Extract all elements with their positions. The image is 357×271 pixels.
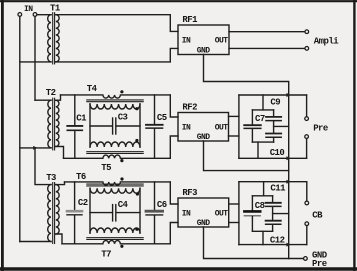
wire inner box bottom edge row2 <box>252 141 273 143</box>
wire box left edge row3 <box>89 188 91 233</box>
wire T5 line into RF2 lower pin <box>170 136 178 158</box>
svg-text:OUT: OUT <box>215 209 229 218</box>
wire T2 secondary bottom step <box>56 147 64 159</box>
node T4 phase dot <box>120 90 123 93</box>
svg-text:T1: T1 <box>50 3 61 13</box>
wire inner box bottom stub row2 <box>257 142 259 158</box>
svg-text:Pre: Pre <box>312 259 327 269</box>
svg-text:Pre: Pre <box>313 124 328 134</box>
wire RF3 OUT top stub <box>229 203 239 205</box>
wire RF3 OUT bottom stub <box>229 222 239 224</box>
op-amp block RF3 <box>178 188 229 228</box>
node T6 phase dot <box>120 177 123 180</box>
wire box left edge row2 <box>89 104 91 147</box>
wire RF2 net left rail <box>238 95 240 158</box>
tuned circuit box bottom winding row2 <box>90 142 140 147</box>
svg-text:T5: T5 <box>101 163 111 173</box>
svg-text:C11: C11 <box>270 184 286 194</box>
svg-text:RF3: RF3 <box>182 188 197 198</box>
node IN terminal 2 <box>33 13 37 17</box>
wire inner box top stub row2 <box>262 95 264 110</box>
core lines above box row3 <box>87 184 143 186</box>
svg-text:C2: C2 <box>78 198 88 208</box>
capacitor C5 <box>146 95 163 158</box>
wire box right edge row2 <box>139 104 141 147</box>
capacitor C10 in right edge <box>266 134 281 143</box>
wire middle tap row2 <box>274 125 289 127</box>
wire RF3 net left rail <box>238 182 240 245</box>
wire T3 secondary bottom step <box>56 234 62 244</box>
svg-text:IN: IN <box>182 209 191 218</box>
op-amp block RF2 <box>178 102 229 142</box>
wire inner box top edge row2 <box>252 109 273 111</box>
wire RF1 GND to ground bus <box>204 55 289 96</box>
wire RF3 GND to GND Pre terminal <box>204 227 304 259</box>
svg-text:OUT: OUT <box>215 123 229 132</box>
node box bottom phase dot row3 <box>135 228 138 231</box>
wire Pre bottom stub <box>306 139 308 159</box>
junction arrow gnd rail bottom line row2 <box>286 156 290 160</box>
svg-text:Ampli: Ampli <box>314 36 339 46</box>
node GND Pre terminal <box>304 257 308 261</box>
svg-text:CB: CB <box>312 211 323 221</box>
svg-text:C9: C9 <box>270 97 280 107</box>
wire T1 secondary top to RF1 <box>56 15 178 32</box>
svg-text:T6: T6 <box>76 172 86 182</box>
node Ampli terminal top <box>305 30 309 34</box>
wire T2 primary bottom lead to left rail <box>20 147 51 149</box>
node box top phase dot row3 <box>136 192 139 195</box>
wire box right edge row3 <box>139 188 141 233</box>
transformer T2 <box>48 98 59 150</box>
tuned circuit box top winding row3 <box>90 188 140 193</box>
tuned circuit box bottom winding row3 <box>90 228 140 233</box>
wire IN2 segment T2 bottom to T3 primary top <box>35 148 51 185</box>
svg-text:C3: C3 <box>118 113 128 123</box>
wire RF2 net bottom line <box>239 157 307 159</box>
capacitor C7 in left edge <box>244 110 261 142</box>
node Ampli terminal bottom <box>305 47 309 51</box>
wire CB bottom stub <box>306 226 308 245</box>
svg-text:OUT: OUT <box>215 36 229 45</box>
capacitor C8 in left edge <box>244 196 260 232</box>
core lines below box row3 <box>87 238 143 240</box>
node IN terminal 1 <box>18 13 22 17</box>
node CB terminal top <box>305 201 309 205</box>
inductor T5 wire with winding <box>64 155 171 158</box>
junction arrow at x35 <box>33 146 37 150</box>
svg-text:IN: IN <box>182 123 191 132</box>
svg-text:C12: C12 <box>270 236 285 246</box>
svg-text:T7: T7 <box>101 250 111 260</box>
svg-text:IN: IN <box>24 5 33 14</box>
node CB terminal bottom <box>305 222 309 226</box>
wire RF2 OUT bottom stub <box>229 135 239 137</box>
wire T3 secondary top step <box>56 182 65 185</box>
inductor T7 wire with winding <box>62 241 170 244</box>
svg-text:C8: C8 <box>255 201 265 211</box>
wire middle tap row3 <box>273 213 289 215</box>
capacitor C9 in right edge <box>266 110 281 133</box>
wire T7 line into RF3 lower pin <box>170 223 178 244</box>
capacitor C6 <box>146 182 163 244</box>
svg-text:C5: C5 <box>157 113 167 123</box>
node box bottom phase dot row2 <box>135 139 138 142</box>
capacitor C11 in right edge <box>266 196 281 220</box>
core lines above box row2 <box>87 100 143 102</box>
wire RF3 net bottom line <box>239 244 307 246</box>
inductor T4 wire with winding <box>61 95 171 98</box>
tuned circuit box top winding row2 <box>90 104 140 109</box>
wire RF1 OUT top to Ampli terminal <box>229 31 305 33</box>
wire inner box bottom stub row3 <box>262 231 264 244</box>
wire T4 line into RF2 IN <box>170 95 178 117</box>
svg-text:T2: T2 <box>46 88 56 98</box>
transformer T3 <box>48 183 59 244</box>
capacitor C12 in right edge <box>266 221 281 232</box>
wire inner box top edge row3 <box>252 195 272 197</box>
svg-text:T4: T4 <box>87 84 98 94</box>
wire IN terminal2 vertical to T2 primary top <box>34 17 36 101</box>
junction arrow gnd rail top line row3 <box>286 180 290 184</box>
svg-text:C4: C4 <box>118 200 129 210</box>
wire RF2 OUT top stub <box>229 115 239 117</box>
wire IN terminal1 vertical rail <box>19 17 21 242</box>
svg-text:RF2: RF2 <box>182 102 197 112</box>
wire T6 line into RF3 IN <box>170 182 178 204</box>
wire CB top stub <box>306 182 308 201</box>
capacitor C4 <box>90 205 140 221</box>
wire T1 primary bottom to left rail <box>20 61 51 63</box>
svg-text:T3: T3 <box>46 173 56 183</box>
svg-text:C1: C1 <box>76 113 87 123</box>
capacitor C3 <box>90 118 140 134</box>
ground bus vertical rail <box>288 95 290 259</box>
wire inner box bottom edge row3 <box>252 230 272 232</box>
wire T3 primary bottom lead <box>20 241 51 243</box>
svg-text:C6: C6 <box>157 200 167 210</box>
node T5 phase dot <box>120 159 123 162</box>
capacitor C2 <box>67 182 82 244</box>
wire T2 secondary top step <box>56 95 61 100</box>
junction arrow gnd rail top line row2 <box>286 93 290 97</box>
wire Pre top stub <box>306 95 308 117</box>
junction arrow gnd rail bottom line row3 <box>286 243 290 247</box>
wire T2 primary top lead <box>35 99 51 101</box>
inductor T6 wire with winding <box>65 182 171 185</box>
wire RF3 net top line <box>239 181 307 183</box>
node box top phase dot row2 <box>135 107 138 110</box>
op-amp block RF1 <box>178 15 229 56</box>
svg-text:C10: C10 <box>270 148 285 158</box>
svg-text:C7: C7 <box>255 114 265 124</box>
wire T1 secondary bottom to RF1 <box>56 48 178 62</box>
wire RF2 GND to ground bus <box>204 141 289 171</box>
node Pre terminal top <box>305 117 309 121</box>
capacitor C1 <box>67 95 82 158</box>
svg-text:IN: IN <box>182 36 191 45</box>
node Pre terminal bottom <box>305 135 309 139</box>
transformer T1 <box>48 13 59 64</box>
wire IN terminal2 to T1 primary top <box>37 14 51 16</box>
node T7 phase dot <box>120 245 123 248</box>
wire RF2 net top line <box>239 94 307 96</box>
wire RF1 OUT bottom to Ampli terminal <box>229 47 305 49</box>
wire inner box top stub row3 <box>263 182 265 196</box>
svg-text:RF1: RF1 <box>182 15 198 25</box>
core lines below box row2 <box>87 152 143 154</box>
